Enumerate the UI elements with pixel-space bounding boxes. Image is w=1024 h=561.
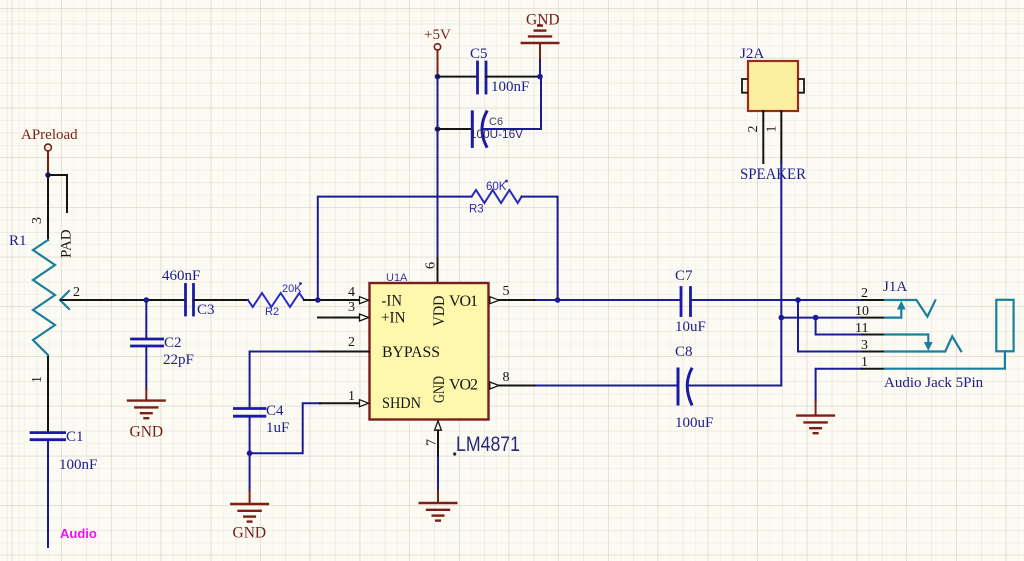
- wire R2 to U1A pin4: [304, 299, 360, 301]
- wire C5 to GND rail: [486, 76, 540, 78]
- svg-text:C1: C1: [66, 429, 84, 445]
- jack J1A pin 2 stub: [862, 299, 885, 301]
- ground symbol under C4: [231, 504, 268, 522]
- wire C7 to jack pin2: [691, 299, 863, 301]
- wire C8 to speaker net: [688, 318, 781, 386]
- jack arrow down: [924, 342, 933, 351]
- J2A left bracket: [742, 79, 747, 93]
- pin 3 stub: [318, 317, 360, 319]
- svg-text:4: 4: [348, 285, 355, 300]
- svg-text:1: 1: [30, 376, 45, 383]
- wire VO2 to C8: [537, 385, 678, 387]
- svg-text:2: 2: [746, 126, 761, 133]
- pin 2 stub: [319, 351, 369, 353]
- svg-text:Audio: Audio: [60, 526, 97, 541]
- wire C2 to ground: [145, 346, 147, 389]
- wire jack pin1: [816, 369, 862, 401]
- jack sleeve wire: [885, 351, 1005, 368]
- wire R3 to VO1 net: [522, 197, 558, 300]
- capacitor C6 curved plate: [482, 112, 487, 146]
- svg-text:J1A: J1A: [883, 279, 907, 295]
- svg-text:C7: C7: [675, 268, 693, 284]
- pin 8 triangle: [490, 382, 499, 389]
- junction node +5V rail C6: [435, 126, 441, 132]
- svg-text:R2: R2: [265, 306, 279, 318]
- J2A pin 1 stub: [780, 111, 782, 163]
- ground stem C4: [249, 491, 251, 504]
- junction node -IN: [315, 297, 321, 303]
- svg-text:GND: GND: [431, 376, 448, 403]
- ground stem U1A: [437, 491, 439, 503]
- ground symbol under U1A: [420, 503, 457, 521]
- svg-text:6: 6: [424, 262, 439, 269]
- ground symbol jack: [797, 416, 834, 434]
- wire +5V rail: [437, 77, 439, 258]
- R3 parameter dot: [505, 180, 508, 183]
- ground stem C2: [145, 389, 147, 401]
- wire C4 junction to gnd: [249, 453, 251, 491]
- svg-text:R1: R1: [9, 233, 27, 249]
- wire C1 down: [47, 441, 49, 547]
- svg-text:5: 5: [503, 284, 510, 299]
- op-amp U1A body: [370, 283, 489, 420]
- junction node speaker C8: [779, 315, 785, 321]
- jack ring contact: [885, 336, 961, 351]
- svg-text:1: 1: [348, 389, 355, 404]
- resistor R2 zigzag: [248, 293, 304, 307]
- svg-text:BYPASS: BYPASS: [382, 344, 440, 361]
- R1 wiper arrow: [60, 291, 69, 309]
- jack tip contact: [885, 300, 935, 317]
- capacitor C6 plate: [471, 112, 474, 146]
- ground stem jack: [815, 401, 817, 416]
- junction node +5V rail top: [435, 74, 441, 80]
- pin 4 triangle: [360, 297, 369, 304]
- LM4871 marker dot: [453, 452, 456, 455]
- wire BYPASS net: [250, 352, 319, 409]
- svg-text:C8: C8: [675, 344, 693, 360]
- resistor R3 zigzag: [472, 190, 522, 203]
- svg-text:U1A: U1A: [386, 272, 408, 284]
- svg-text:22pF: 22pF: [163, 352, 194, 368]
- wire link pin2 to pin3: [798, 300, 862, 352]
- svg-text:10uF: 10uF: [675, 319, 706, 335]
- svg-text:3: 3: [861, 338, 868, 353]
- wire pin7 to gnd: [437, 457, 439, 491]
- svg-text:SHDN: SHDN: [382, 395, 421, 412]
- svg-text:C3: C3: [197, 302, 215, 318]
- ground symbol under C2: [128, 401, 165, 419]
- wire C4 to junction: [249, 416, 251, 453]
- wire junction to C2: [145, 300, 147, 339]
- jack J1A pin 1 stub: [862, 368, 885, 370]
- svg-text:C5: C5: [470, 46, 488, 62]
- J2A pin 2 stub: [762, 111, 764, 163]
- pin 7 stub: [437, 430, 439, 457]
- svg-text:1: 1: [861, 355, 868, 370]
- svg-text:460nF: 460nF: [162, 268, 200, 284]
- +5V stem: [437, 50, 439, 77]
- wire wiper to junction: [61, 299, 186, 301]
- wire feedback riser: [318, 197, 472, 300]
- svg-text:C4: C4: [266, 403, 284, 419]
- junction node C4 gnd: [247, 450, 253, 456]
- svg-text:APreload: APreload: [21, 127, 78, 143]
- svg-text:2: 2: [861, 286, 868, 301]
- svg-text:1: 1: [765, 126, 780, 133]
- jack sleeve: [996, 300, 1013, 352]
- svg-text:1uF: 1uF: [266, 420, 289, 436]
- svg-text:11: 11: [855, 321, 868, 336]
- svg-text:2: 2: [348, 335, 355, 350]
- junction node VO1 feedback: [555, 297, 561, 303]
- capacitor C8 plate: [677, 369, 680, 404]
- pin 7 triangle: [435, 421, 442, 430]
- capacitor C5: [478, 62, 487, 93]
- pin 5 stub: [499, 299, 537, 301]
- wire C6 to GND rail: [483, 77, 541, 129]
- pin 8 stub: [499, 385, 537, 387]
- wire PAD stub: [48, 175, 67, 212]
- wire +5V to C6: [438, 128, 473, 130]
- svg-text:100uF: 100uF: [675, 415, 713, 431]
- svg-text:7: 7: [425, 439, 440, 446]
- svg-text:3: 3: [30, 217, 45, 224]
- pin 5 triangle: [490, 297, 499, 304]
- pin 1 stub: [320, 402, 360, 404]
- svg-text:J2A: J2A: [740, 46, 764, 62]
- junction node jack pin2: [795, 297, 801, 303]
- connector J2A body: [748, 61, 798, 111]
- svg-text:SPEAKER: SPEAKER: [740, 166, 806, 183]
- svg-text:60K: 60K: [486, 181, 507, 193]
- ground symbol top (flipped): [522, 26, 559, 43]
- svg-text:PAD: PAD: [59, 229, 75, 258]
- capacitor C1: [31, 433, 65, 440]
- capacitor C4: [234, 409, 265, 417]
- svg-text:LM4871: LM4871: [456, 433, 520, 456]
- svg-text:3: 3: [348, 300, 355, 315]
- port circle APreload: [45, 144, 52, 151]
- svg-text:-IN: -IN: [382, 293, 403, 310]
- wire to R1 pin3: [47, 175, 49, 240]
- svg-text:10: 10: [855, 304, 869, 319]
- wire +5V to C5: [438, 76, 478, 78]
- wire R1 to C1: [47, 357, 49, 432]
- pin 6 stub: [437, 258, 439, 283]
- jack NC contact pin11: [885, 335, 928, 343]
- resistor R1 zigzag: [33, 240, 55, 357]
- wire SHDN net: [250, 403, 320, 453]
- svg-text:100nF: 100nF: [59, 457, 97, 473]
- svg-text:Audio Jack 5Pin: Audio Jack 5Pin: [884, 375, 984, 391]
- svg-text:2: 2: [73, 285, 80, 300]
- svg-text:100nF: 100nF: [491, 79, 529, 95]
- junction node pin10 link: [813, 315, 819, 321]
- wire VO1 to C7: [537, 299, 681, 301]
- svg-text:+5V: +5V: [424, 27, 451, 43]
- svg-text:VDD: VDD: [431, 296, 448, 327]
- wire to jack pin10: [781, 317, 862, 319]
- jack J1A pin 10 stub: [862, 317, 885, 319]
- svg-text:C2: C2: [164, 335, 182, 351]
- svg-text:20K: 20K: [282, 283, 302, 295]
- capacitor C3: [186, 285, 194, 316]
- svg-text:GND: GND: [233, 525, 267, 542]
- R2 parameter dot: [299, 282, 302, 285]
- svg-text:8: 8: [503, 370, 510, 385]
- svg-text:GND: GND: [526, 12, 560, 29]
- svg-text:VO1: VO1: [449, 293, 478, 310]
- svg-text:VO2: VO2: [449, 376, 478, 393]
- pin 1 triangle: [360, 400, 369, 407]
- jack J1A pin 3 stub: [862, 351, 885, 353]
- jack arrow up: [897, 301, 906, 310]
- svg-text:GND: GND: [130, 424, 164, 441]
- ground stem top GND: [539, 58, 541, 77]
- junction node APreload: [45, 172, 51, 178]
- junction node at C2: [144, 297, 150, 303]
- capacitor C8 curved plate: [687, 369, 691, 404]
- pin 3 triangle: [360, 314, 369, 321]
- svg-text:R3: R3: [469, 204, 484, 216]
- wire APreload stub: [47, 151, 49, 175]
- wire speaker pin1 down: [780, 163, 782, 318]
- svg-text:+IN: +IN: [381, 310, 406, 327]
- capacitor C2: [132, 339, 163, 346]
- +5V circle: [434, 44, 440, 50]
- wire link pin10 to pin11: [816, 318, 862, 335]
- jack NC contact pin10: [885, 309, 901, 318]
- jack J1A pin 11 stub: [862, 334, 885, 336]
- wire C3 to R2: [194, 299, 249, 301]
- capacitor C7: [681, 288, 691, 316]
- junction node GND rail: [537, 74, 543, 80]
- J2A right bracket: [799, 79, 804, 93]
